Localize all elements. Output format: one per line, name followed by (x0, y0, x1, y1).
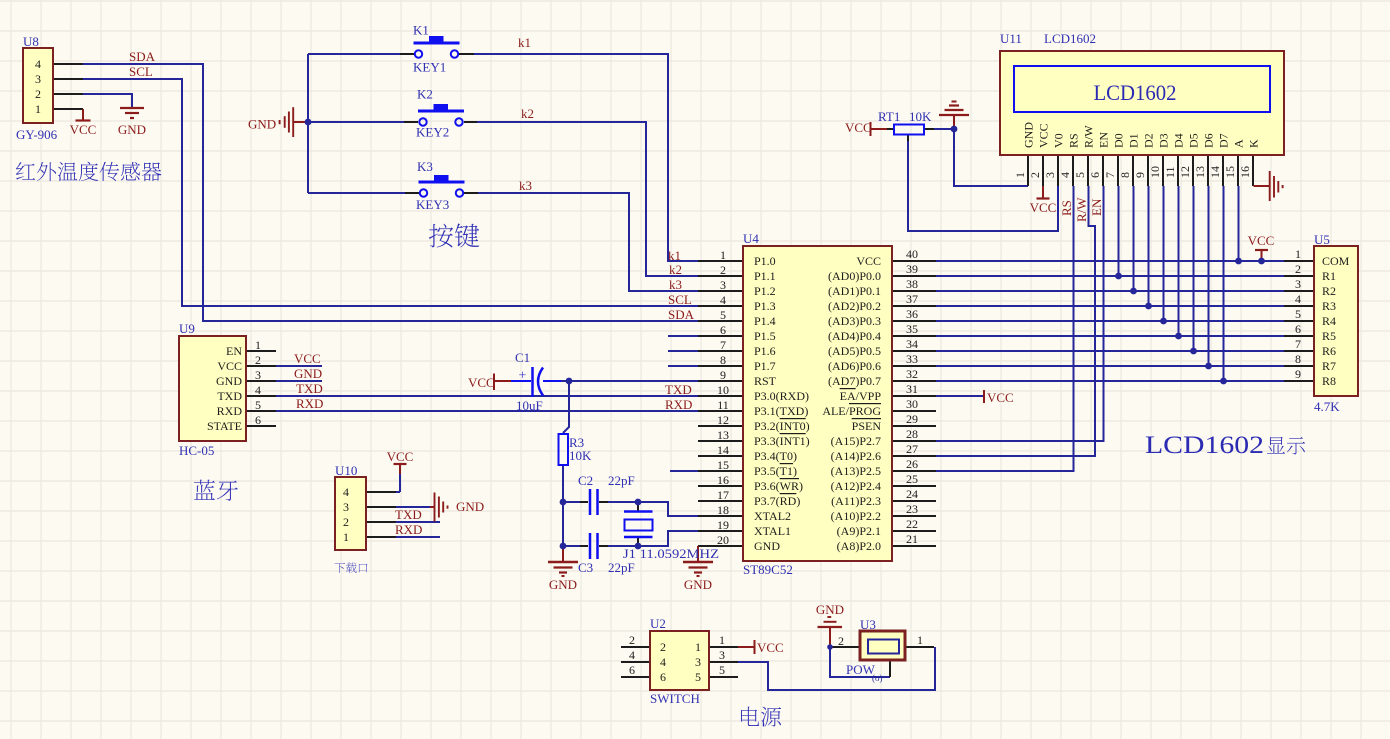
svg-text:U5: U5 (1314, 232, 1330, 247)
svg-text:18: 18 (717, 503, 729, 517)
svg-text:32: 32 (906, 367, 918, 381)
svg-text:D2: D2 (1142, 133, 1156, 148)
svg-text:38: 38 (906, 277, 918, 291)
svg-text:P1.7: P1.7 (754, 359, 776, 373)
svg-text:LCD1602: LCD1602 (1094, 80, 1177, 105)
svg-text:K: K (1247, 139, 1261, 148)
svg-text:1: 1 (720, 248, 726, 262)
svg-text:k2: k2 (669, 262, 682, 277)
svg-text:31: 31 (906, 382, 918, 396)
svg-text:GND: GND (549, 577, 577, 592)
svg-text:STATE: STATE (207, 419, 242, 433)
svg-text:6: 6 (255, 413, 261, 427)
svg-text:R8: R8 (1322, 374, 1336, 388)
svg-text:36: 36 (906, 307, 918, 321)
svg-text:28: 28 (906, 427, 918, 441)
svg-text:C1: C1 (515, 350, 530, 365)
svg-text:D3: D3 (1157, 133, 1171, 148)
svg-text:(AD7)P0.7: (AD7)P0.7 (828, 374, 881, 388)
svg-text:5: 5 (1073, 172, 1087, 178)
svg-text:4.7K: 4.7K (1314, 399, 1340, 414)
svg-text:GND: GND (1022, 122, 1036, 148)
svg-text:5: 5 (255, 398, 261, 412)
svg-text:k2: k2 (521, 106, 534, 121)
svg-text:D1: D1 (1127, 133, 1141, 148)
svg-text:1: 1 (695, 640, 701, 654)
svg-text:R5: R5 (1322, 329, 1336, 343)
svg-text:RT1: RT1 (878, 109, 900, 124)
svg-text:U9: U9 (179, 321, 195, 336)
svg-text:(AD2)P0.2: (AD2)P0.2 (828, 299, 881, 313)
svg-text:D4: D4 (1172, 133, 1186, 148)
svg-text:2: 2 (838, 634, 844, 648)
svg-text:R3: R3 (1322, 299, 1336, 313)
svg-text:(AD3)P0.3: (AD3)P0.3 (828, 314, 881, 328)
svg-text:SDA: SDA (129, 49, 156, 64)
svg-text:P1.5: P1.5 (754, 329, 776, 343)
svg-text:11: 11 (1163, 166, 1177, 178)
svg-text:VCC: VCC (217, 359, 242, 373)
svg-text:8: 8 (720, 353, 726, 367)
svg-text:SCL: SCL (129, 64, 153, 79)
svg-text:P1.4: P1.4 (754, 314, 776, 328)
svg-text:GND: GND (216, 374, 242, 388)
svg-text:5: 5 (719, 663, 725, 677)
svg-text:R/W: R/W (1074, 197, 1089, 222)
svg-text:GND: GND (816, 602, 844, 617)
svg-text:P3.7(RD): P3.7(RD) (754, 494, 800, 508)
svg-text:17: 17 (717, 488, 729, 502)
svg-text:14: 14 (1208, 166, 1222, 178)
svg-text:1: 1 (917, 633, 923, 647)
svg-text:16: 16 (717, 473, 729, 487)
svg-text:10uF: 10uF (516, 398, 543, 413)
svg-text:TXD: TXD (665, 382, 692, 397)
svg-text:12: 12 (1178, 166, 1192, 178)
svg-text:1: 1 (255, 338, 261, 352)
svg-text:GND: GND (754, 539, 780, 553)
svg-text:RS: RS (1067, 133, 1081, 148)
svg-text:k3: k3 (519, 178, 532, 193)
svg-text:RXD: RXD (665, 397, 692, 412)
svg-text:2: 2 (1295, 262, 1301, 276)
svg-text:ST89C52: ST89C52 (743, 562, 793, 577)
svg-text:P3.0(RXD): P3.0(RXD) (754, 389, 809, 403)
svg-text:P1.1: P1.1 (754, 269, 776, 283)
svg-text:24: 24 (906, 487, 918, 501)
svg-text:8: 8 (1295, 352, 1301, 366)
svg-text:R1: R1 (1322, 269, 1336, 283)
svg-text:TXD: TXD (217, 389, 242, 403)
svg-text:VCC: VCC (856, 254, 881, 268)
svg-text:P3.3(INT1): P3.3(INT1) (754, 434, 810, 448)
svg-text:SDA: SDA (668, 307, 695, 322)
svg-text:11: 11 (717, 398, 729, 412)
svg-text:VCC: VCC (1248, 233, 1275, 248)
svg-text:XTAL2: XTAL2 (754, 509, 791, 523)
svg-text:k1: k1 (518, 35, 531, 50)
svg-text:3: 3 (35, 72, 41, 86)
svg-text:VCC: VCC (387, 449, 414, 464)
svg-text:J1 11.0592MHZ: J1 11.0592MHZ (623, 546, 719, 561)
svg-text:3: 3 (1043, 172, 1057, 178)
svg-text:D6: D6 (1202, 133, 1216, 148)
svg-text:LCD1602: LCD1602 (1044, 31, 1096, 46)
svg-text:12: 12 (717, 413, 729, 427)
svg-text:U3: U3 (860, 617, 876, 632)
svg-text:P3.5(T1): P3.5(T1) (754, 464, 797, 478)
svg-text:(A14)P2.6: (A14)P2.6 (831, 449, 881, 463)
svg-text:EN: EN (1097, 132, 1111, 148)
svg-text:VCC: VCC (294, 351, 321, 366)
svg-text:k3: k3 (669, 277, 682, 292)
svg-text:39: 39 (906, 262, 918, 276)
svg-text:(A11)P2.3: (A11)P2.3 (831, 494, 881, 508)
svg-text:3: 3 (695, 655, 701, 669)
svg-text:(A15)P2.7: (A15)P2.7 (831, 434, 881, 448)
svg-text:37: 37 (906, 292, 918, 306)
svg-text:GND: GND (248, 117, 276, 132)
svg-text:14: 14 (717, 443, 729, 457)
svg-text:K1: K1 (413, 23, 429, 38)
svg-text:2: 2 (720, 263, 726, 277)
svg-text:2: 2 (343, 515, 349, 529)
svg-text:6: 6 (629, 663, 635, 677)
svg-text:SWITCH: SWITCH (650, 691, 700, 706)
svg-text:VCC: VCC (70, 122, 97, 137)
svg-text:4: 4 (660, 655, 666, 669)
svg-text:5: 5 (720, 308, 726, 322)
svg-text:k1: k1 (668, 248, 681, 263)
svg-text:6: 6 (1088, 172, 1102, 178)
svg-text:22pF: 22pF (608, 473, 635, 488)
svg-text:26: 26 (906, 457, 918, 471)
svg-text:8: 8 (1118, 172, 1132, 178)
svg-text:34: 34 (906, 337, 918, 351)
svg-text:6: 6 (1295, 322, 1301, 336)
svg-text:2: 2 (35, 87, 41, 101)
svg-text:PSEN: PSEN (852, 419, 882, 433)
svg-text:1: 1 (35, 102, 41, 116)
svg-text:29: 29 (906, 412, 918, 426)
svg-text:R2: R2 (1322, 284, 1336, 298)
svg-text:20: 20 (717, 533, 729, 547)
svg-text:1: 1 (1013, 172, 1027, 178)
svg-text:9: 9 (1295, 367, 1301, 381)
svg-text:3: 3 (720, 278, 726, 292)
svg-text:D7: D7 (1217, 133, 1231, 148)
svg-text:A: A (1232, 139, 1246, 148)
svg-text:3: 3 (343, 500, 349, 514)
svg-text:R7: R7 (1322, 359, 1336, 373)
svg-text:22pF: 22pF (608, 560, 635, 575)
svg-text:TXD: TXD (395, 507, 422, 522)
svg-text:(AD5)P0.5: (AD5)P0.5 (828, 344, 881, 358)
svg-text:4: 4 (255, 383, 261, 397)
svg-text:(AD1)P0.1: (AD1)P0.1 (828, 284, 881, 298)
svg-text:4: 4 (1295, 292, 1301, 306)
svg-text:23: 23 (906, 502, 918, 516)
svg-text:(AD6)P0.6: (AD6)P0.6 (828, 359, 881, 373)
svg-text:VCC: VCC (845, 120, 872, 135)
svg-text:VCC: VCC (468, 375, 495, 390)
svg-text:RXD: RXD (395, 522, 422, 537)
svg-text:R6: R6 (1322, 344, 1336, 358)
svg-text:R/W: R/W (1082, 125, 1096, 148)
svg-text:U2: U2 (650, 616, 666, 631)
svg-text:7: 7 (720, 338, 726, 352)
svg-text:KEY3: KEY3 (416, 197, 449, 212)
svg-text:(A9)P2.1: (A9)P2.1 (837, 524, 881, 538)
svg-text:16: 16 (1238, 166, 1252, 178)
svg-text:C2: C2 (578, 473, 593, 488)
svg-text:GND: GND (294, 366, 322, 381)
svg-text:(AD4)P0.4: (AD4)P0.4 (828, 329, 881, 343)
svg-text:SCL: SCL (668, 292, 692, 307)
svg-text:RST: RST (754, 374, 777, 388)
svg-text:6: 6 (720, 323, 726, 337)
svg-text:GND: GND (684, 577, 712, 592)
svg-text:P1.6: P1.6 (754, 344, 776, 358)
svg-text:D5: D5 (1187, 133, 1201, 148)
svg-text:P1.0: P1.0 (754, 254, 776, 268)
svg-text:(A10)P2.2: (A10)P2.2 (831, 509, 881, 523)
svg-text:3: 3 (1295, 277, 1301, 291)
svg-text:10: 10 (717, 383, 729, 397)
svg-text:+: + (519, 369, 527, 384)
svg-text:COM: COM (1322, 254, 1350, 268)
svg-text:P1.2: P1.2 (754, 284, 776, 298)
svg-text:22: 22 (906, 517, 918, 531)
svg-text:EA/VPP: EA/VPP (840, 389, 882, 403)
svg-text:P3.4(T0): P3.4(T0) (754, 449, 797, 463)
svg-text:4: 4 (35, 57, 41, 71)
svg-text:TXD: TXD (296, 381, 323, 396)
svg-text:27: 27 (906, 442, 918, 456)
svg-text:P1.3: P1.3 (754, 299, 776, 313)
svg-text:2: 2 (660, 640, 666, 654)
svg-text:P3.1(TXD): P3.1(TXD) (754, 404, 808, 418)
svg-text:RS: RS (1059, 200, 1074, 216)
svg-text:KEY2: KEY2 (416, 125, 449, 140)
svg-text:6: 6 (660, 670, 666, 684)
svg-text:VCC: VCC (987, 390, 1014, 405)
svg-text:10: 10 (1148, 166, 1162, 178)
svg-text:P3.6(WR): P3.6(WR) (754, 479, 803, 493)
svg-text:25: 25 (906, 472, 918, 486)
svg-text:13: 13 (1193, 166, 1207, 178)
svg-text:XTAL1: XTAL1 (754, 524, 791, 538)
svg-text:4: 4 (629, 648, 635, 662)
svg-text:K3: K3 (417, 159, 433, 174)
svg-text:35: 35 (906, 322, 918, 336)
svg-text:(AD0)P0.0: (AD0)P0.0 (828, 269, 881, 283)
svg-text:ALE/PROG: ALE/PROG (822, 404, 881, 418)
svg-text:U10: U10 (335, 463, 357, 478)
svg-text:KEY1: KEY1 (413, 60, 446, 75)
svg-text:2: 2 (255, 353, 261, 367)
svg-text:10K: 10K (909, 109, 932, 124)
svg-text:7: 7 (1103, 172, 1117, 178)
svg-text:V0: V0 (1052, 133, 1066, 148)
svg-text:1: 1 (343, 530, 349, 544)
svg-text:EN: EN (226, 344, 242, 358)
svg-text:D0: D0 (1112, 133, 1126, 148)
svg-text:2: 2 (1028, 172, 1042, 178)
svg-text:5: 5 (1295, 307, 1301, 321)
svg-text:GND: GND (456, 499, 484, 514)
svg-text:2: 2 (629, 633, 635, 647)
svg-text:GND: GND (118, 122, 146, 137)
svg-text:15: 15 (717, 458, 729, 472)
svg-text:P3.2(INT0): P3.2(INT0) (754, 419, 810, 433)
svg-text:U11: U11 (1000, 31, 1022, 46)
svg-text:LCD1602: LCD1602 (1145, 432, 1264, 459)
svg-text:9: 9 (720, 368, 726, 382)
svg-text:U4: U4 (743, 231, 759, 246)
svg-text:EN: EN (1089, 198, 1104, 216)
svg-text:(A13)P2.5: (A13)P2.5 (831, 464, 881, 478)
svg-text:7: 7 (1295, 337, 1301, 351)
svg-text:(A12)P2.4: (A12)P2.4 (831, 479, 881, 493)
svg-text:GY-906: GY-906 (16, 127, 58, 142)
svg-text:19: 19 (717, 518, 729, 532)
svg-text:21: 21 (906, 532, 918, 546)
svg-text:3: 3 (255, 368, 261, 382)
svg-text:4: 4 (343, 485, 349, 499)
svg-text:(A8)P2.0: (A8)P2.0 (837, 539, 881, 553)
svg-text:13: 13 (717, 428, 729, 442)
svg-text:4: 4 (1058, 172, 1072, 178)
svg-text:9: 9 (1133, 172, 1147, 178)
svg-text:R4: R4 (1322, 314, 1336, 328)
svg-text:C3: C3 (578, 560, 593, 575)
svg-text:10K: 10K (569, 448, 592, 463)
svg-text:VCC: VCC (1037, 123, 1051, 148)
svg-text:3: 3 (719, 648, 725, 662)
svg-text:33: 33 (906, 352, 918, 366)
svg-text:1: 1 (1295, 247, 1301, 261)
svg-text:15: 15 (1223, 166, 1237, 178)
svg-text:K2: K2 (417, 87, 433, 102)
svg-text:4: 4 (720, 293, 726, 307)
svg-text:40: 40 (906, 247, 918, 261)
svg-text:VCC: VCC (1030, 200, 1057, 215)
svg-text:5: 5 (695, 670, 701, 684)
svg-text:30: 30 (906, 397, 918, 411)
svg-text:RXD: RXD (296, 396, 323, 411)
svg-text:(o): (o) (872, 673, 883, 683)
svg-text:1: 1 (719, 633, 725, 647)
svg-text:RXD: RXD (217, 404, 243, 418)
svg-text:VCC: VCC (757, 640, 784, 655)
svg-text:HC-05: HC-05 (179, 443, 214, 458)
svg-text:U8: U8 (23, 34, 39, 49)
